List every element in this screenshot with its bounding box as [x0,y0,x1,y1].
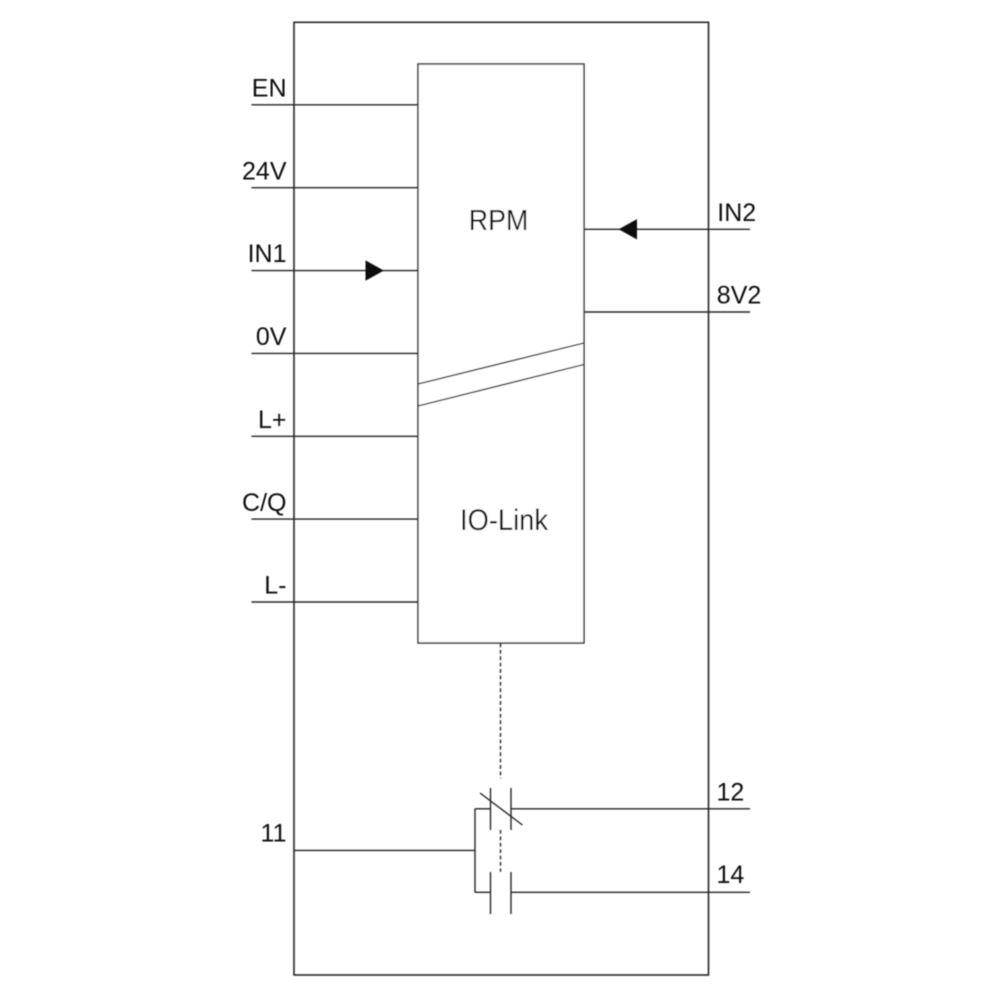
svg-text:11: 11 [261,820,287,848]
svg-text:C/Q: C/Q [242,489,286,517]
svg-text:24V: 24V [242,157,287,185]
svg-text:8V2: 8V2 [717,282,761,310]
svg-text:RPM: RPM [469,205,529,237]
relay NO contact 14 left bar [490,872,492,914]
common bracket wire [474,809,476,893]
relay NC contact 12 slash [480,793,523,825]
wire 24V [252,187,419,189]
svg-text:IN2: IN2 [717,199,756,227]
wire IN1 [252,270,419,272]
svg-text:12: 12 [717,779,745,807]
wire 8V2 [584,311,750,313]
arrow IN1 [366,260,384,280]
relay NO contact 14 right bar [510,872,512,914]
wire L- [252,601,419,603]
relay NC contact 12 left bar [490,788,492,830]
svg-text:IO-Link: IO-Link [460,504,548,537]
svg-text:L-: L- [264,572,286,600]
svg-text:0V: 0V [256,323,287,351]
svg-text:14: 14 [717,861,745,889]
relay NC contact 12 right bar [510,788,512,830]
wire 0V [252,352,419,354]
wire terminal 14 [511,891,750,893]
svg-text:L+: L+ [258,406,287,434]
arrow IN2 [619,219,637,239]
svg-text:IN1: IN1 [248,240,287,268]
separator diagonal line 1 [418,343,584,384]
wire C/Q [252,518,419,520]
mechanical linkage dashed line upper [500,644,502,779]
wire contact 12 stub [475,808,491,810]
function block U1 [418,64,584,643]
separator diagonal line 2 [418,365,584,407]
svg-text:EN: EN [252,75,287,103]
wire terminal 11 [294,849,475,851]
wire IN2 [584,228,750,230]
wire L+ [252,435,419,437]
wire terminal 12 [511,808,750,810]
wire contact 14 stub [475,891,491,893]
mechanical linkage dashed line lower [500,830,502,872]
device outline [294,22,709,975]
wire EN [252,104,419,106]
